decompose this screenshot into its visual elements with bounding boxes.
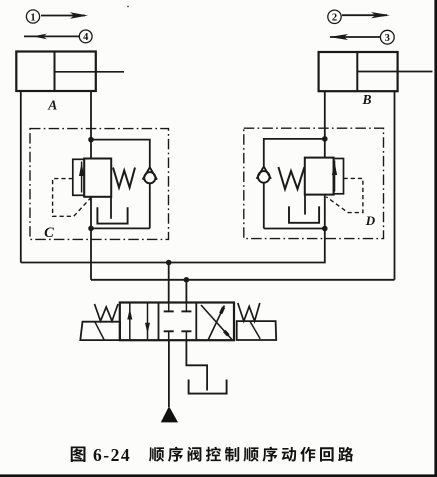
U1 right position: crossed arrows	[201, 305, 232, 339]
wire: valve D outlet down then left (line L1)	[21, 195, 325, 263]
tank T1	[189, 380, 227, 394]
wire: line L2 from valve C outlet to cyl B right port	[91, 279, 395, 281]
node: junction on L2 above valve port B	[184, 277, 190, 283]
valve C drain line	[110, 197, 112, 219]
sequence valve D main square	[305, 158, 334, 195]
sequence valve D pilot stage (narrow box)	[334, 159, 344, 194]
wire: T line stepped	[186, 340, 207, 390]
node: junction on L1 above valve port A	[166, 260, 172, 266]
U1 right spring	[238, 303, 260, 321]
wire: valve C outlet down	[90, 197, 92, 280]
spring W of valve D	[278, 167, 304, 189]
arrow stroke 4 (left)	[24, 34, 79, 40]
U1 left spring	[95, 304, 119, 321]
wire: cyl B right port down then left	[394, 91, 396, 280]
U1 left position: parallel arrows	[127, 303, 150, 341]
svg-text:3: 3	[385, 33, 390, 44]
pressure source (filled triangle)	[161, 406, 178, 422]
arrow stroke 2 (right)	[342, 12, 390, 18]
valve C drain tank	[97, 207, 127, 223]
valve D drain tank	[289, 206, 319, 222]
svg-text:2: 2	[332, 13, 337, 24]
valve D drain line	[304, 195, 306, 215]
node 4 (circled)	[79, 30, 92, 43]
wire: C check valve loop bottom	[91, 227, 150, 229]
sequence valve C pilot stage (narrow box)	[73, 159, 84, 195]
cylinder A piston	[54, 52, 56, 92]
U1 position dividers	[158, 303, 160, 341]
caption: 图 6-24 顺序阀控制顺序动作回路	[71, 445, 354, 465]
node: C inlet junction	[88, 137, 94, 143]
wire: D branch to check valve (top)	[264, 139, 325, 167]
node: D outlet junction	[322, 226, 328, 232]
cylinder A rod	[55, 71, 125, 73]
U1 left solenoid	[80, 322, 120, 340]
check valve C	[143, 167, 157, 228]
enclosure D (dash-dot)	[244, 128, 384, 238]
svg-text:D: D	[365, 213, 376, 228]
arrow stroke 1 (right)	[41, 12, 88, 18]
wire: cyl A left port down	[20, 91, 22, 263]
svg-text:6-24: 6-24	[93, 445, 131, 465]
wire: P line down	[168, 340, 170, 407]
page border bottom	[0, 474, 437, 477]
pilot line D (dashed)	[326, 178, 363, 212]
node: D inlet junction	[322, 136, 328, 142]
wire: cyl B left port down to valve D inlet	[324, 91, 326, 157]
wire: cyl A right port down to valve C inlet	[90, 91, 92, 159]
speck	[127, 6, 129, 8]
arrow stroke 3 (left)	[329, 34, 380, 40]
cylinder B rod	[357, 71, 432, 73]
wire: down to valve port A	[168, 263, 170, 303]
node 3 (circled)	[380, 30, 394, 44]
page border right	[434, 0, 437, 477]
node: C outlet junction	[88, 226, 94, 232]
directional valve U1 body	[120, 303, 234, 341]
svg-text:B: B	[361, 92, 371, 107]
node 1 (circled)	[26, 10, 39, 23]
check valve D	[257, 167, 271, 229]
spring W of valve C	[113, 168, 135, 188]
U1 right solenoid	[237, 321, 277, 340]
sequence valve C main square	[84, 159, 111, 197]
svg-text:C: C	[44, 225, 54, 241]
wire: down to valve port B	[185, 280, 187, 303]
valve C internal arrow (up)	[79, 162, 84, 193]
svg-text:4: 4	[83, 32, 89, 43]
U1 centre position: blocked ports	[164, 303, 192, 341]
pilot line C (dashed)	[53, 179, 91, 217]
node 2 (circled)	[328, 10, 341, 24]
cylinder A body	[16, 52, 96, 92]
valve D internal arrow (up)	[332, 161, 337, 192]
svg-text:1: 1	[30, 12, 35, 23]
cylinder B body	[319, 52, 398, 91]
enclosure C (dash-dot)	[30, 129, 169, 240]
cylinder B piston	[356, 52, 358, 91]
wire: D check valve loop bottom	[264, 228, 325, 230]
wire: C branch to check valve (top)	[91, 140, 150, 168]
svg-text:A: A	[47, 98, 57, 113]
